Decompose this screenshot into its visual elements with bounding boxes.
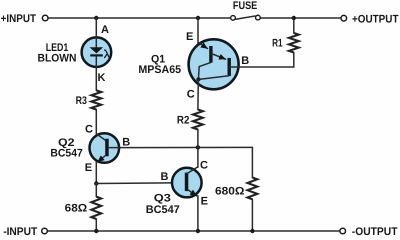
wire corner to 680ohm bbox=[251, 147, 253, 177]
svg-text:+INPUT: +INPUT bbox=[1, 13, 37, 25]
svg-text:R3: R3 bbox=[76, 95, 87, 107]
wire top rail to Q1 emitter bbox=[197, 18, 199, 44]
svg-text:B: B bbox=[122, 136, 130, 148]
svg-text:R1: R1 bbox=[272, 38, 283, 50]
wire base rail Q2 to 680ohm corner bbox=[109, 146, 253, 148]
svg-text:BLOWN: BLOWN bbox=[38, 52, 77, 64]
terminal -INPUT bbox=[3, 226, 47, 238]
svg-text:K: K bbox=[98, 72, 106, 84]
transistor Q2 BC547 bbox=[50, 133, 119, 163]
svg-text:MPSA65: MPSA65 bbox=[138, 64, 181, 76]
svg-text:E: E bbox=[186, 31, 193, 43]
svg-text:BC547: BC547 bbox=[146, 204, 180, 216]
transistor Q1 MPSA65 bbox=[138, 39, 293, 109]
svg-text:B: B bbox=[241, 55, 249, 67]
LED1 bbox=[38, 37, 112, 68]
wire LED1 to R3 bbox=[95, 68, 97, 91]
junction Q2 emitter / Q3 base bbox=[94, 181, 98, 185]
svg-text:+OUTPUT: +OUTPUT bbox=[352, 13, 399, 25]
terminal +INPUT bbox=[1, 13, 48, 25]
svg-text:E: E bbox=[85, 162, 92, 174]
junction 680ohm bottom rail bbox=[250, 229, 254, 233]
wire junction to Q3 base bbox=[96, 182, 185, 185]
junction 68ohm bottom rail bbox=[94, 229, 98, 233]
resistor R1 bbox=[272, 18, 299, 67]
junction R1 top rail bbox=[292, 16, 296, 20]
svg-text:Q3: Q3 bbox=[154, 193, 171, 205]
wire bottom rail bbox=[48, 230, 340, 232]
node E junction Q1 top rail bbox=[196, 16, 200, 20]
wire top rail right segment bbox=[261, 17, 341, 19]
wire junction to Q3 collector bbox=[197, 147, 199, 167]
junction Q3 emitter bottom rail bbox=[196, 229, 200, 233]
svg-text:C: C bbox=[187, 89, 195, 101]
svg-text:A: A bbox=[101, 24, 109, 36]
transistor Q3 BC547 bbox=[146, 167, 202, 216]
svg-text:-INPUT: -INPUT bbox=[3, 226, 37, 238]
pin E of Q3 bbox=[201, 196, 208, 208]
pin E of Q1 bbox=[186, 31, 193, 43]
pin C of Q3 bbox=[200, 159, 208, 171]
svg-text:R2: R2 bbox=[177, 114, 190, 126]
fuse F1 bbox=[231, 0, 261, 20]
svg-text:68Ω: 68Ω bbox=[65, 203, 88, 215]
wire Q3 emitter to bottom rail bbox=[197, 196, 199, 231]
svg-text:B: B bbox=[161, 171, 169, 183]
pin C of Q2 bbox=[85, 123, 93, 135]
resistor R3 bbox=[76, 90, 102, 109]
wire node A to LED1 bbox=[95, 18, 97, 37]
pin B of Q1 bbox=[241, 55, 249, 67]
resistor 680ohm bbox=[215, 178, 257, 232]
terminal +OUTPUT bbox=[341, 13, 399, 25]
pin B of Q3 bbox=[161, 171, 169, 183]
junction R2 bottom bbox=[196, 145, 200, 149]
svg-text:-OUTPUT: -OUTPUT bbox=[352, 226, 398, 238]
wire top rail left segment bbox=[49, 17, 231, 19]
pin C of Q1 bbox=[187, 89, 195, 101]
wire R3 to Q2 collector bbox=[95, 110, 97, 135]
svg-text:C: C bbox=[200, 159, 208, 171]
resistor 68ohm bbox=[65, 184, 102, 232]
node K bbox=[98, 72, 106, 84]
terminal -OUTPUT bbox=[340, 226, 398, 238]
svg-text:E: E bbox=[201, 196, 208, 208]
svg-text:680Ω: 680Ω bbox=[215, 185, 245, 197]
pin E of Q2 bbox=[85, 162, 92, 174]
node A bbox=[94, 16, 109, 36]
wire Q2 emitter down bbox=[95, 162, 97, 184]
resistor R2 bbox=[177, 110, 203, 148]
svg-text:BC547: BC547 bbox=[50, 148, 82, 160]
svg-text:FUSE: FUSE bbox=[233, 0, 257, 12]
svg-text:C: C bbox=[85, 123, 93, 135]
pin B of Q2 bbox=[122, 136, 130, 148]
